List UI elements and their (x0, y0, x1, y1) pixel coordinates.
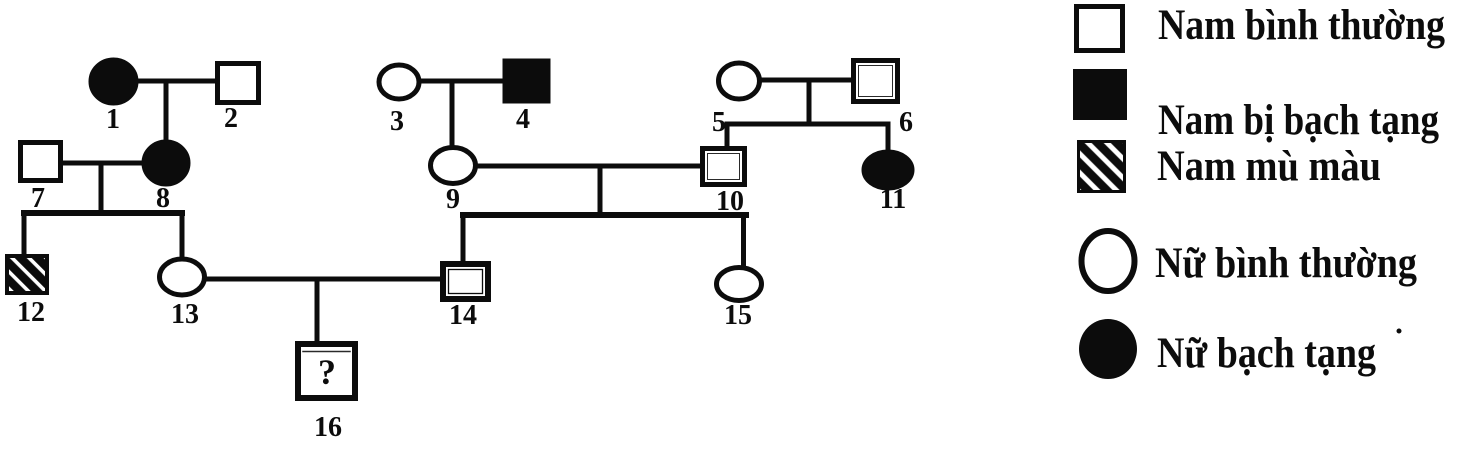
svg-text:?: ? (318, 352, 336, 392)
svg-text:5: 5 (712, 107, 726, 138)
individual 2: normal male (open square) (218, 64, 259, 103)
individual 14 inner border (449, 270, 483, 294)
svg-text:7: 7 (31, 183, 45, 214)
individual 6: normal male (open square) (854, 61, 898, 102)
individual 11: albino female (filled circle) (863, 151, 914, 190)
wire: couple line 5-6 (760, 78, 855, 83)
wire: couple line 13-14 (205, 277, 443, 282)
legend symbol: albino male filled square (1073, 69, 1127, 120)
individual 16 inner border line (303, 351, 350, 353)
individual 14: normal male (open square, double border) (443, 264, 488, 299)
wire: descent from couple 13-14 to individual 16 (315, 279, 320, 345)
wire: couple line 1-2 (135, 79, 219, 84)
wire: descent to individual 11 (886, 124, 891, 156)
wire: descent from couple 3-4 to individual 9 (450, 81, 455, 150)
svg-text:14: 14 (449, 300, 477, 331)
wire: descent to individual 15 (741, 215, 746, 270)
wire: couple line 3-4 (418, 79, 506, 84)
individual 6 inner border (859, 66, 893, 97)
individual 13: normal female (open circle) (160, 259, 205, 295)
svg-text:Nam bình thường: Nam bình thường (1158, 2, 1445, 49)
individual 3: normal female (open circle) (379, 65, 419, 99)
wire: couple line 7-8 (60, 161, 148, 166)
wire: couple line 9-10 (476, 164, 703, 169)
wire: descent to individual 14 (461, 215, 466, 266)
svg-text:2: 2 (224, 103, 238, 134)
svg-text:13: 13 (171, 299, 199, 330)
wire: descent to individual 12 (22, 213, 27, 258)
individual 8: albino female (filled circle) (143, 141, 190, 186)
svg-text:11: 11 (880, 184, 906, 215)
wire: descent from couple 1-2 to individual 8 (164, 81, 169, 150)
svg-text:Nam bị bạch tạng: Nam bị bạch tạng (1158, 97, 1439, 144)
legend symbol: normal female open circle (1082, 231, 1135, 291)
svg-text:1: 1 (106, 104, 120, 135)
individual 9: normal female (open circle) (431, 148, 476, 184)
wire: descent to individual 13 (180, 213, 185, 261)
individual 15: normal female (open circle) (717, 268, 762, 301)
individual 1: affected female (filled circle) (90, 59, 138, 105)
svg-text:15: 15 (724, 300, 752, 331)
individual 10: normal male (open square) (703, 149, 745, 185)
wire: descent to individual 10 (725, 124, 730, 152)
wire: sibship line children of 7-8 (24, 210, 182, 216)
individual 4: albino male (filled square) (503, 59, 550, 103)
stray scan dot (1397, 329, 1402, 334)
wire: sibship line children of 9-10 (463, 212, 746, 218)
individual 7: normal male (open square) (21, 143, 61, 181)
svg-text:Nữ bình thường: Nữ bình thường (1155, 240, 1417, 287)
svg-text:16: 16 (314, 412, 342, 443)
individual 16: unknown sex male (open square with ?) (298, 344, 355, 398)
wire: descent from couple 5-6 (807, 80, 812, 124)
individual 10 inner border (708, 154, 740, 180)
wire: descent from couple 7-8 (99, 163, 104, 213)
wire: sibship line children of 5-6 (727, 122, 888, 127)
wire: descent from couple 9-10 (598, 166, 603, 215)
svg-text:Nữ bạch tạng: Nữ bạch tạng (1157, 330, 1376, 377)
legend symbol: normal male open square (1077, 7, 1123, 51)
svg-text:9: 9 (446, 184, 460, 215)
legend symbol: albino female filled circle (1079, 319, 1137, 379)
svg-text:10: 10 (716, 186, 744, 217)
individual 12: colorblind male (hatched square) (7, 256, 47, 293)
svg-text:8: 8 (156, 183, 170, 214)
legend symbol: colorblind male hatched square (1079, 142, 1125, 192)
svg-text:12: 12 (17, 297, 45, 328)
svg-text:Nam mù màu: Nam mù màu (1157, 143, 1381, 190)
individual 5: normal female (open circle) (719, 63, 760, 99)
svg-text:6: 6 (899, 107, 913, 138)
svg-text:4: 4 (516, 104, 530, 135)
svg-text:3: 3 (390, 106, 404, 137)
